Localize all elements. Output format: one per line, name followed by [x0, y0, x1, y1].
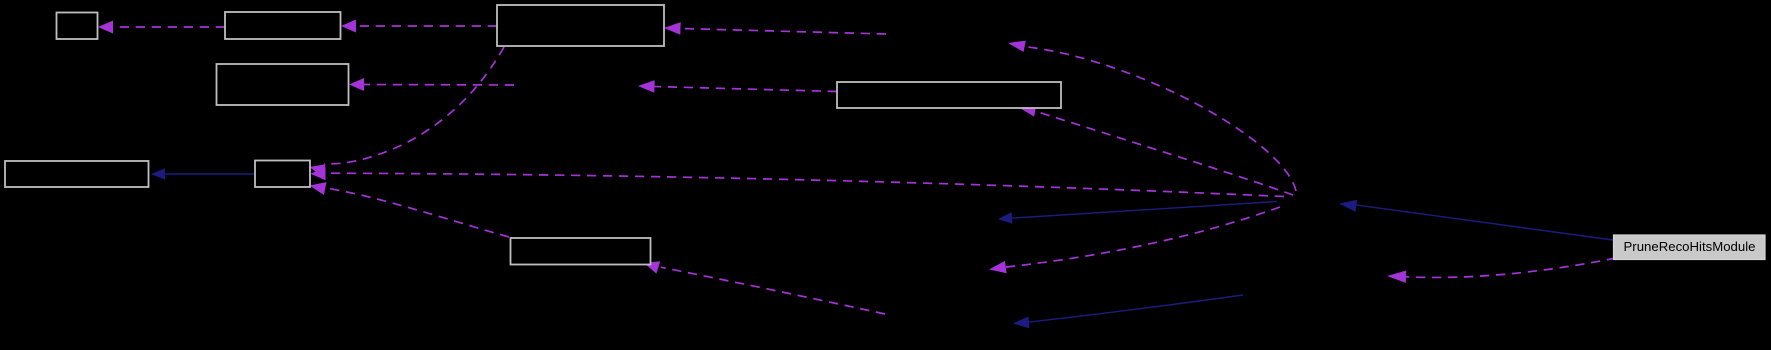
- edge hub to nodeC (inheritance): [1011, 202, 1277, 219]
- node B8: [511, 238, 651, 265]
- edge B3 to B2: [354, 25, 497, 27]
- edge nodeF to nodeE (inheritance): [1027, 295, 1243, 322]
- edge B3 to B7: [324, 47, 504, 164]
- node B2: [225, 12, 341, 39]
- edge PruneRecoHitsModule to hub (inheritance): [1354, 205, 1613, 240]
- node B1: [57, 13, 98, 40]
- svg-text:PruneRecoHitsModule: PruneRecoHitsModule: [1624, 239, 1756, 254]
- edge hub to B7: [327, 173, 1284, 196]
- node B3: [497, 5, 664, 46]
- edge nodeG to B4: [362, 84, 514, 87]
- node PruneRecoHitsModule: [1614, 235, 1766, 260]
- node B6: [5, 161, 149, 187]
- edge hub to nodeD: [1004, 207, 1280, 267]
- edge hub to nodeA: [1024, 47, 1296, 192]
- node B7: [255, 161, 310, 188]
- edge PruneRecoHitsModule to nodeF: [1406, 258, 1616, 277]
- node B5: [837, 82, 1061, 108]
- edge nodeE to B8: [661, 267, 885, 314]
- node B4: [217, 64, 349, 105]
- edge B7 to B6 (inheritance): [164, 173, 255, 175]
- edge B2 to B1: [111, 26, 225, 28]
- edge B8 to B7: [323, 188, 509, 238]
- edge nodeA to B3: [677, 28, 886, 34]
- edge B5 to nodeG: [651, 86, 837, 91]
- edge hub to B5: [1035, 111, 1293, 195]
